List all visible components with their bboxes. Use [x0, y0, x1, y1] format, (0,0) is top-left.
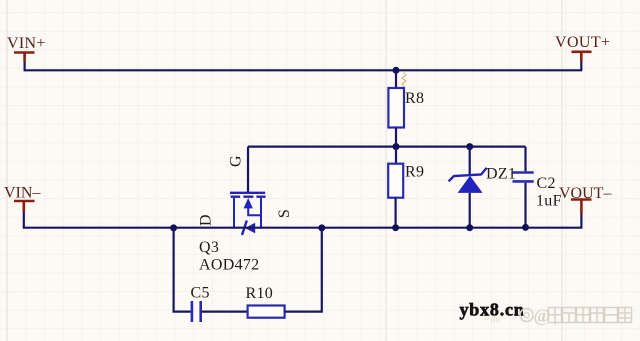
svg-text:C2: C2: [537, 175, 556, 192]
diode DZ1 zener triangle: [458, 176, 483, 193]
wire VIN+ stem: [24, 62, 26, 70]
wire VOUT- stem: [580, 214, 582, 228]
svg-text:D: D: [198, 214, 215, 226]
svg-text:1uF: 1uF: [536, 193, 562, 210]
node junction bottom rail / R9: [392, 224, 399, 231]
resistor R8: [388, 88, 404, 128]
diode DZ1 zener bar: [449, 168, 487, 181]
wire R8 bottom lead: [395, 128, 397, 147]
node junction bottom rail / S feedback: [318, 224, 325, 231]
diode body cathode bar: [242, 221, 247, 236]
watermark chinese blocks: [549, 308, 632, 325]
diode DZ1 bottom lead: [469, 193, 471, 228]
svg-text:Q3: Q3: [199, 239, 219, 256]
svg-text:VOUT+: VOUT+: [555, 34, 610, 51]
port VIN+ symbol: [14, 53, 35, 63]
capacitor C2 top lead: [524, 147, 526, 172]
wire R9 top lead: [395, 147, 397, 164]
svg-text:VIN–: VIN–: [4, 185, 41, 202]
svg-text:R9: R9: [405, 164, 424, 181]
capacitor C2 plates: [513, 173, 534, 182]
diode DZ1 zener top lead: [469, 147, 471, 175]
svg-text:R10: R10: [246, 285, 274, 302]
svg-text:DZ1: DZ1: [486, 166, 516, 183]
transistor Q3 MOSFET symbol: [230, 193, 266, 229]
port VOUT- symbol: [571, 200, 592, 215]
svg-text:VIN+: VIN+: [7, 35, 46, 52]
svg-text:@: @: [534, 306, 551, 326]
transistor Q3 substrate arrow: [244, 198, 253, 209]
watermark logo circle: [520, 306, 550, 326]
svg-text:AOD472: AOD472: [199, 257, 259, 274]
node junction bottom rail / D feedback: [170, 224, 177, 231]
wire C5 to R10: [202, 311, 247, 313]
resistor R10: [248, 306, 285, 318]
port VOUT+ symbol: [572, 52, 592, 62]
wire R10 to S node: [285, 228, 322, 312]
capacitor C2 bottom lead: [524, 183, 526, 227]
wire top rail VIN+ to VOUT+: [24, 69, 583, 71]
wire feedback left vertical: [174, 228, 191, 312]
svg-text:G: G: [228, 155, 245, 167]
wire bottom rail: [23, 227, 583, 229]
resistor R9: [388, 164, 403, 198]
wire VIN- stem: [23, 212, 25, 228]
wire VOUT+ stem: [580, 62, 582, 70]
svg-text:S: S: [276, 209, 293, 218]
svg-text:du: du: [491, 314, 501, 324]
capacitor C5 plates: [192, 301, 201, 322]
node junction bottom rail / DZ1: [466, 224, 473, 231]
wire R9 bottom lead: [395, 198, 397, 228]
wire gate rail: [248, 146, 526, 148]
node junction gate rail / DZ1: [466, 143, 473, 150]
port VIN- symbol: [14, 201, 35, 212]
wire gate lead vertical: [247, 147, 249, 192]
svg-text:R8: R8: [405, 90, 424, 107]
svg-text:C5: C5: [191, 285, 210, 302]
node junction top rail / R8: [393, 67, 400, 74]
diode body diode of Q3: [245, 223, 255, 234]
wire R8 top lead: [395, 70, 397, 88]
node junction gate rail / R8 R9: [393, 143, 400, 150]
node junction bottom rail / C2: [522, 224, 529, 231]
no-connect squiggle marker: [402, 73, 406, 87]
